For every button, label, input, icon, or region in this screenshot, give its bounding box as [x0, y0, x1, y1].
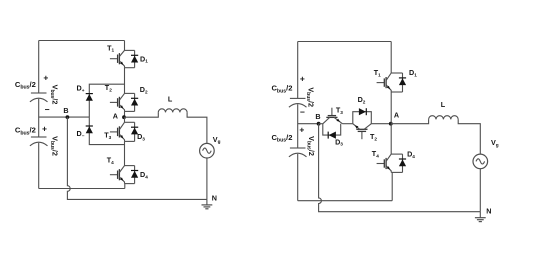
svg-text:B: B [63, 106, 68, 115]
wire bottom DC rail (left circuit) [39, 188, 125, 190]
wire node B to T3 (right circuit) [319, 123, 323, 125]
wire neutral return B to N (right circuit, hops bottom rail) [319, 124, 481, 212]
wire left DC rail middle segment [38, 99, 40, 137]
transistor T4 (IGBT) [377, 154, 392, 172]
wire T4 emitter bracket [125, 183, 135, 185]
ground symbol (left circuit) [206, 199, 208, 205]
transistor T2 (IGBT) [110, 93, 125, 111]
svg-text:B: B [315, 112, 320, 121]
wire T2 emitter bracket [125, 110, 135, 112]
wire T1 collector bracket [125, 49, 135, 51]
node B junction dot (right circuit) [317, 122, 321, 126]
wire T4 emitter feed (left circuit) [124, 184, 126, 189]
wire DC midpoint to node B (right circuit) [298, 123, 319, 125]
wire right DC rail middle segment [297, 104, 299, 148]
wire AC source to node N (right circuit) [479, 169, 481, 212]
wire T1 emitter to node A (right circuit) [390, 92, 392, 124]
wire DC midpoint to clamp diodes (node B line) [39, 116, 90, 118]
wire T4 collector bracket [391, 153, 402, 155]
capacitor C1 Cbus/2 (right circuit upper) [290, 97, 306, 99]
wire leg T1-T2 junction segment [124, 68, 126, 94]
wire T1 collector feed (right circuit) [390, 42, 392, 74]
node A junction dot (right circuit) [389, 122, 393, 126]
svg-text:+: + [299, 124, 304, 134]
diode D2 (points right, right circuit) [359, 108, 366, 115]
wire inductor to AC source (left circuit) [187, 112, 207, 143]
wire right DC rail lower segment [297, 154, 299, 201]
wire D2 parallel path [353, 112, 372, 124]
transistor T3 (IGBT, right circuit) [323, 108, 343, 124]
transistor T2 (IGBT, right circuit) [353, 124, 372, 140]
diode D3 (points left, right circuit) [328, 132, 336, 139]
wire clamp branch top horizontal [89, 84, 125, 117]
inductor L (left circuit) [158, 109, 187, 113]
diode D3 (antiparallel) [131, 122, 138, 141]
wire T2 collector bracket [125, 92, 135, 94]
diode D1 (antiparallel) [399, 73, 406, 92]
transistor T4 (IGBT) [110, 166, 125, 184]
wire bottom DC rail (right circuit) [298, 200, 393, 202]
diode D2 (antiparallel) [131, 93, 138, 111]
svg-text:+: + [300, 74, 305, 84]
svg-text:−: − [300, 107, 305, 117]
wire clamp branch bottom horizontal [89, 117, 125, 145]
wire top DC rail (right circuit) [298, 41, 392, 43]
svg-text:+: + [43, 72, 48, 82]
wire right DC rail upper segment [297, 42, 299, 99]
svg-text:N: N [212, 194, 217, 203]
transistor T3 (IGBT) [110, 122, 125, 141]
svg-text:L: L [441, 100, 446, 109]
capacitor C1 Cbus/2 (left circuit upper) [31, 92, 47, 94]
wire left DC rail lower segment [38, 143, 40, 189]
wire T1 collector bracket [391, 72, 402, 74]
wire node A to T4 (right circuit) [390, 124, 392, 154]
wire AC source to node N (left circuit) [206, 158, 208, 199]
wire T1 emitter bracket [125, 67, 135, 69]
wire T4 emitter bracket [391, 171, 402, 173]
wire node A to inductor (right circuit) [391, 119, 428, 123]
wire T4 collector bracket [125, 165, 135, 167]
wire T1 collector feed (left circuit) [124, 41, 126, 51]
wire left DC rail upper segment [38, 41, 40, 94]
node B junction dot (left circuit) [66, 115, 70, 119]
svg-text:A: A [113, 112, 118, 121]
wire leg node A to T3 [124, 117, 126, 122]
wire T1 emitter bracket [391, 91, 402, 93]
node A junction dot (left circuit) [122, 115, 126, 119]
svg-text:A: A [394, 110, 399, 119]
wire neutral return B to N (left circuit, hops bottom rail) [67, 117, 207, 199]
AC source Vg (right circuit) [473, 154, 488, 169]
svg-text:−: − [45, 105, 50, 115]
svg-text:+: + [42, 124, 47, 134]
capacitor C2 Cbus/2 (left circuit lower) [31, 136, 47, 138]
wire T3 collector bracket [125, 121, 135, 123]
wire T3 to T2 common-emitter link [342, 123, 352, 125]
wire D3 parallel path [323, 124, 341, 135]
wire top DC rail (left circuit) [39, 40, 125, 42]
transistor T1 (IGBT) [377, 73, 392, 92]
inductor L (right circuit) [429, 116, 459, 120]
transistor T1 (IGBT) [110, 50, 125, 67]
wire leg T2 to node A [124, 111, 126, 117]
wire node A to inductor (left circuit) [125, 112, 159, 117]
svg-text:N: N [486, 207, 491, 216]
wire T2 to node A (right circuit) [371, 123, 391, 125]
AC source Vg (left circuit) [200, 143, 215, 158]
ground symbol (right circuit) [479, 212, 481, 218]
capacitor C2 Cbus/2 (right circuit lower) [290, 147, 306, 149]
diode D4 (antiparallel) [399, 154, 406, 172]
diode D1 (antiparallel) [131, 50, 138, 67]
svg-text:L: L [168, 95, 173, 104]
wire inductor to AC source (right circuit) [458, 119, 480, 154]
diode D− (lower clamp) [86, 126, 93, 133]
wire leg T3-T4 junction segment [124, 141, 126, 165]
wire T3 emitter bracket [125, 140, 135, 142]
diode D+ (upper clamp) [86, 94, 93, 101]
wire T4 emitter feed (right circuit) [391, 172, 393, 200]
diode D4 (antiparallel) [131, 166, 138, 184]
